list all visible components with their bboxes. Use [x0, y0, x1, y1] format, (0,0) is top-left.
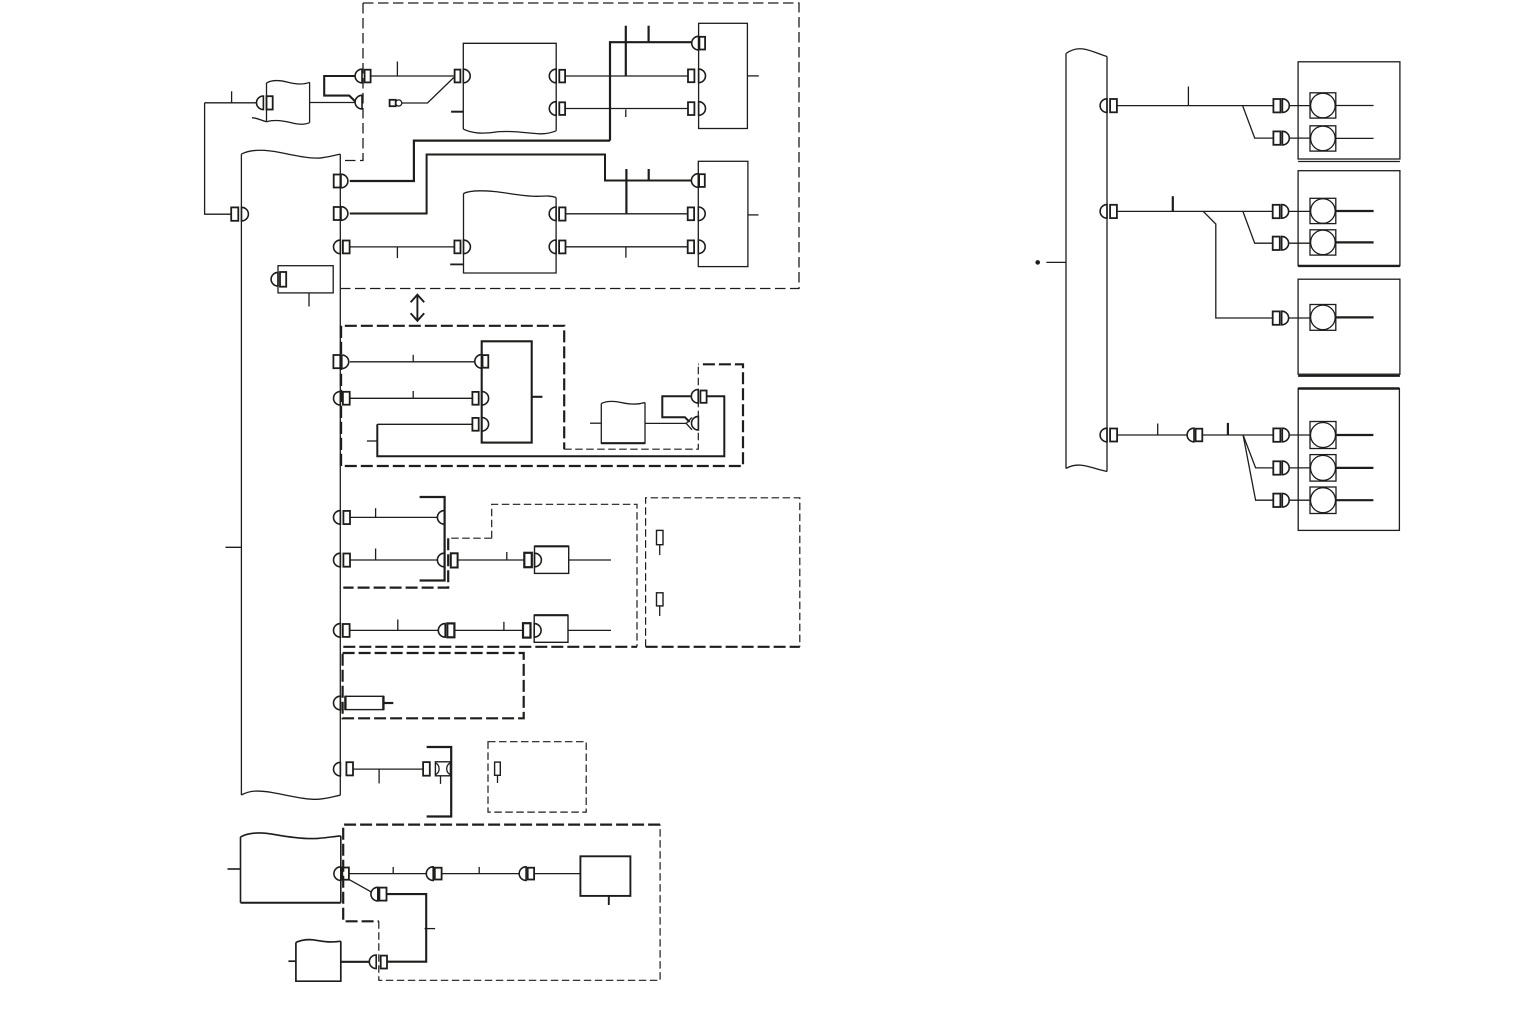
bold tick — [625, 169, 627, 214]
bold wire tick — [1172, 196, 1174, 211]
wire tick — [503, 622, 505, 631]
wire tick — [375, 549, 377, 561]
connector pair lamp row 138.1 — [1273, 131, 1289, 145]
component D2 (connector block, second right) — [698, 161, 758, 266]
pin E2 right row 213.8 — [549, 207, 565, 221]
female terminal at J3 — [423, 762, 430, 776]
branch R2 down to lamp box 3 — [1203, 211, 1272, 318]
lamp L2a (bulb) — [1289, 198, 1374, 223]
connector pair lamp row 243.2 — [1273, 236, 1289, 250]
wire K2 out — [568, 629, 611, 631]
dashed enclosure box A (top system boundary) — [341, 3, 799, 289]
connector at K2 (bold female) — [523, 623, 531, 637]
harness pin row 246.9 — [334, 240, 350, 254]
lamp L4a (bulb) — [1289, 422, 1373, 449]
mated connector pair row 630.4 — [438, 623, 454, 637]
harness pin row R3 (y=435) — [1100, 428, 1117, 442]
junction bracket J3 (bold) — [427, 747, 452, 817]
pin E2 left (row 246.9) — [454, 240, 470, 254]
harness pin row 517.4 — [334, 511, 350, 525]
dashed box J2 bottom (bold) — [646, 646, 800, 648]
wire harness to F pin2 — [350, 397, 473, 399]
pin F row 398.3 — [472, 392, 488, 406]
wire tick below — [625, 247, 627, 257]
resistor R1 — [345, 696, 393, 710]
wire tick — [392, 867, 394, 874]
wire tick below — [625, 110, 627, 118]
lamp L1a (bulb) — [1289, 93, 1373, 118]
lamp assembly box 4 — [1298, 389, 1399, 531]
mated female (bold) right of J1 — [451, 553, 458, 567]
dashed box J2 (thin, right) — [646, 498, 800, 647]
wire E2 to D2 row 246.8 — [566, 246, 689, 248]
joint connector JC1 (square with facing arcs) — [435, 762, 450, 784]
wire from B1 pin to left drop — [205, 102, 257, 104]
wire tick below — [378, 769, 380, 783]
component O1 (solid box) — [580, 856, 630, 905]
wire tick — [478, 867, 480, 874]
bullet dot with stub — [1035, 260, 1066, 265]
wire tick — [396, 62, 398, 77]
wire harness to junction row 769 — [353, 768, 423, 770]
pin D1 row 75.7 — [688, 69, 705, 83]
pin E2 right row 246.8 — [549, 240, 565, 254]
bold wire tick — [1227, 423, 1229, 435]
lamp assembly box 3 — [1298, 279, 1400, 376]
spare terminal T3 — [495, 762, 501, 783]
wire tick — [1187, 87, 1189, 106]
pin F row 424.3 — [472, 418, 488, 432]
stub — [367, 440, 377, 442]
dashed box I (bold, resistor enclosure) — [343, 653, 524, 718]
connector pair lamp row 467.9 — [1273, 461, 1289, 475]
lamp L4c (bulb) — [1289, 487, 1373, 514]
wire to K2 — [454, 629, 523, 631]
ECU E1 (box with torn bottom edge) — [463, 43, 556, 134]
pin F row 361.4 — [475, 355, 488, 369]
wire K1 out — [569, 559, 611, 561]
wire harness to pair row 630.4 — [350, 629, 439, 631]
wire tick — [375, 508, 377, 517]
pin D2 row 246.8 — [688, 240, 705, 254]
wiring harness trunk W1 (tall box, torn top and bottom) — [241, 150, 340, 799]
spare connector S1 (capped plug) — [390, 78, 454, 107]
bold tick — [625, 26, 627, 76]
branch diagonal R3 to lamp row 467.9 — [1243, 435, 1273, 468]
connector pin of B2 — [271, 272, 286, 287]
connector pin of B1 (half-round male, rect female) — [257, 96, 273, 110]
wire N1 to pair row 873.6 — [349, 873, 427, 875]
component K1 (small box) — [535, 546, 569, 573]
stub E2 lower left — [450, 263, 463, 265]
harness pin row 361.4 — [333, 355, 348, 369]
mated connector pair (mid row 873.6) — [426, 867, 441, 881]
pin D2 row 213.8 — [688, 207, 705, 221]
wire tick — [506, 552, 508, 560]
lamp L1b (bulb) — [1289, 126, 1373, 151]
harness pin row 560 — [334, 553, 350, 567]
connector on J1 row 560 — [437, 553, 444, 567]
connector pair lamp row 105.6 — [1273, 99, 1289, 113]
stub E1 lower left — [451, 111, 463, 113]
relay block F (bold box inside B) — [482, 341, 543, 442]
lamp assembly box 1 — [1298, 62, 1400, 162]
mated connector pair mid R3 — [1187, 428, 1202, 442]
tick on harness left edge — [226, 546, 242, 548]
connector at K1 (bold female) — [524, 553, 532, 567]
bold fork jumper C3 to C4 — [662, 396, 690, 422]
connector pair lamp row 500.2 — [1273, 493, 1289, 507]
wire tick — [1157, 424, 1159, 436]
harness pin row 213.5 (bold circuit) — [334, 207, 348, 221]
wire tick below — [396, 247, 398, 258]
harness pin row 630.4 — [334, 624, 350, 638]
component K2 (small box) — [534, 615, 568, 642]
bold tick — [648, 169, 650, 181]
pin D1 row 43.1 — [692, 36, 705, 50]
bold wire harness to D2 feed — [350, 155, 692, 214]
component E3 (small box with torn top, inside C) — [590, 401, 645, 443]
spare terminal T1 in J2 — [657, 530, 664, 555]
bold tick — [647, 26, 649, 43]
pin D2 row 180.5 — [691, 174, 704, 188]
dashed box (thin, spare connector enclosure row 769) — [488, 742, 586, 812]
wire R1 — [1117, 105, 1274, 107]
harness pin row 703 — [334, 696, 341, 710]
connector pair lamp row 435 — [1273, 428, 1289, 442]
wire tick — [412, 391, 414, 398]
bold jumper wire C1 to C2 — [324, 76, 355, 101]
lamp assembly box 2 — [1298, 171, 1400, 266]
lamp L2b (bulb) — [1289, 230, 1374, 255]
wire E1 to D1 row 108.5 — [565, 108, 688, 110]
wire to component O1 — [534, 873, 580, 875]
component M1 (box with torn top, bottom) — [288, 940, 340, 982]
wire F pin3 to loop — [377, 423, 472, 425]
branch diagonal from N1 pin — [349, 879, 371, 892]
bold wire loop pair3 to pair4 — [387, 894, 427, 962]
lamp L3 (bulb) — [1289, 305, 1374, 331]
branch diagonal R3 to lamp row 500.2 — [1243, 435, 1273, 500]
bold wire M1 to pair4 — [341, 961, 370, 963]
connector C2 (male half on box A boundary, row y=102) — [355, 95, 362, 109]
ECU E2 (box with torn top edge) — [464, 191, 557, 273]
harness pin row 769 — [334, 762, 353, 776]
dashed enclosure box B (bold, relay block) — [341, 326, 743, 466]
bold feed wire to D1 pin1 — [610, 42, 692, 140]
junction bracket J1 (bold) — [420, 497, 445, 581]
pin E1 right row 108.5 — [549, 102, 565, 116]
wire tick — [425, 928, 436, 930]
component B2 (small box near harness, left mid) — [278, 266, 333, 307]
wire E2 to D2 row 213.8 — [566, 213, 689, 215]
connector pair lamp row 318 — [1273, 311, 1289, 325]
wiring harness trunk W2 (right, torn top and bottom) — [1066, 49, 1107, 472]
dashed box G (thin with bold jog) — [448, 504, 637, 647]
connector pair lamp row 211.4 — [1273, 205, 1289, 219]
connector C1 (male/female pair on box A boundary, row y=76) — [355, 69, 370, 83]
mated connector pair 2 (row 873.6) — [519, 867, 534, 881]
lamp L4b (bulb) — [1289, 455, 1373, 482]
dashed box C (thin, inner boundary) — [564, 364, 698, 449]
dashed box G bold left/bottom — [343, 538, 637, 647]
harness pin row 398.3 — [334, 392, 350, 406]
harness pin row 181 (bold circuit) — [334, 174, 348, 188]
wire E3 to C4 with trumpet — [645, 417, 692, 429]
mated connector pair 3 — [371, 887, 387, 901]
wire to resistor K1 — [458, 559, 525, 561]
wire tick — [412, 355, 414, 362]
pin N1 (row 873.6) — [334, 867, 349, 881]
wire R2 — [1117, 210, 1273, 212]
component D1 (connector block top right) — [699, 23, 759, 128]
double-headed arrow (link between box A and box B) — [411, 295, 425, 321]
wire R3 right — [1202, 434, 1273, 436]
bold return wire loop to connector C3 — [377, 396, 724, 456]
wire harness to F pin1 — [350, 361, 474, 363]
wire to second pair — [442, 873, 520, 875]
connector C4 (on box C boundary) — [692, 416, 699, 430]
connector pair at harness left edge — [231, 207, 248, 221]
branch diagonal R2 to lamp row 243 — [1243, 211, 1273, 243]
wire harness to J1 row 517.4 — [350, 516, 438, 518]
component B1 (small box with torn edges, top left) — [252, 81, 310, 125]
connector C3 (on box C boundary) — [691, 390, 706, 404]
pin D1 row 108.6 — [688, 102, 705, 116]
wire tick — [397, 620, 399, 631]
wire B1 to C2 — [310, 102, 356, 104]
harness pin row R1 (y=105.6) — [1100, 99, 1117, 113]
wire tick — [231, 91, 233, 103]
pin E1 left (row 76) — [455, 69, 471, 83]
connector pair 4 (on box L boundary) — [369, 955, 387, 969]
wire left vertical drop — [205, 103, 232, 214]
pin E1 right row 76 — [549, 69, 565, 83]
dashed enclosure box L (bottom, bold top/left) — [343, 825, 660, 922]
spare terminal T2 in J2 — [657, 593, 664, 616]
wire C1 to ECU E1 — [371, 75, 454, 77]
connector on J1 row 517.4 — [437, 511, 444, 525]
component N1 (box with torn top, bottom left) — [228, 833, 341, 903]
branch diagonal R1 to lamp row 138 — [1243, 106, 1274, 139]
wire harness to J1 row 560 — [350, 559, 438, 561]
wire harness to E2 — [350, 246, 455, 248]
bold wire harness to D1 feed — [350, 141, 610, 181]
harness pin row R2 (y=211.4) — [1100, 205, 1117, 219]
wire E1 to D1 row 76 — [565, 75, 688, 77]
wire R3 left — [1117, 434, 1187, 436]
